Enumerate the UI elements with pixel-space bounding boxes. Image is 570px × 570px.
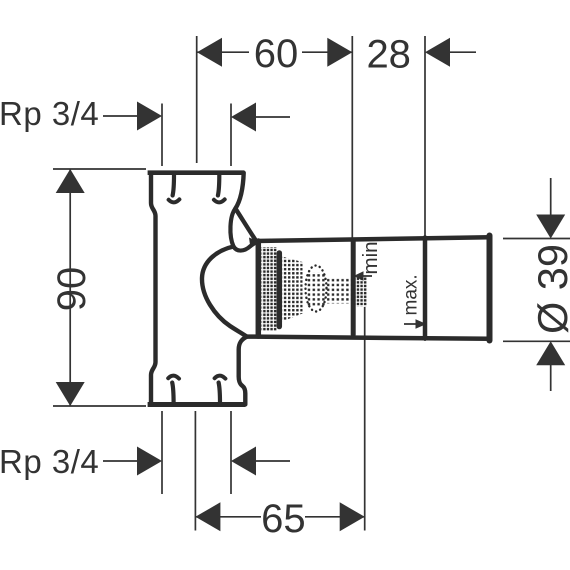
svg-text:Rp 3/4: Rp 3/4 bbox=[0, 443, 99, 480]
svg-text:60: 60 bbox=[254, 32, 299, 76]
svg-text:65: 65 bbox=[261, 497, 306, 541]
svg-text:28: 28 bbox=[366, 32, 411, 76]
svg-text:90: 90 bbox=[50, 267, 94, 312]
svg-text:Rp 3/4: Rp 3/4 bbox=[0, 95, 99, 132]
svg-text:min: min bbox=[359, 241, 382, 274]
svg-text:Ø 39: Ø 39 bbox=[529, 244, 570, 334]
svg-text:max.: max. bbox=[401, 274, 422, 315]
